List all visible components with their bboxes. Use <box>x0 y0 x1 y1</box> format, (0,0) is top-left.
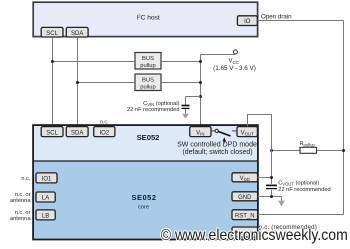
chip pin DWL_REQ <box>232 227 258 237</box>
chip pin LB <box>36 210 55 220</box>
junction dot VDD <box>270 176 273 179</box>
svg-text:© www.electronicsweekly.com: © www.electronicsweekly.com <box>161 227 348 244</box>
chip pin RST_N <box>232 210 258 220</box>
svg-text:RST_N: RST_N <box>235 213 255 219</box>
junction dot GND-CVOUT <box>270 195 273 198</box>
svg-text:22 nF recommended: 22 nF recommended <box>278 187 330 193</box>
svg-text:IO: IO <box>244 19 251 25</box>
svg-text:n.c.: n.c. <box>21 176 31 182</box>
resistor Rpullup <box>272 141 344 153</box>
chip pin GND <box>232 192 258 201</box>
svg-text:CVOUT (optional): CVOUT (optional) <box>278 181 319 187</box>
svg-text:antenna: antenna <box>10 198 31 204</box>
wire pullup1 right <box>161 61 201 63</box>
junction dot Rpullup-right <box>342 149 345 152</box>
ground arrow CVIN <box>182 114 189 119</box>
svg-text:SCL: SCL <box>46 31 58 37</box>
wire VDD <box>258 177 272 179</box>
svg-text:I2C host: I2C host <box>136 13 160 21</box>
chip pin IO2 <box>94 127 115 137</box>
wire SCL vertical <box>52 37 54 126</box>
svg-text:LA: LA <box>42 196 49 202</box>
svg-text:BUS: BUS <box>142 78 154 84</box>
svg-text:VIN: VIN <box>196 130 204 136</box>
svg-text:Rpullup: Rpullup <box>300 141 316 147</box>
wire RST_N <box>258 214 344 216</box>
chip pin IO1 <box>36 173 57 183</box>
svg-text:VOUT: VOUT <box>241 130 254 136</box>
junction dot Rpullup-left <box>270 149 273 152</box>
switch control arrow <box>223 137 227 143</box>
svg-text:SE052: SE052 <box>137 133 160 142</box>
host pin IO <box>237 16 257 26</box>
VCC rail horizontal <box>201 54 236 56</box>
svg-text:pullup: pullup <box>140 84 155 90</box>
wire SDA vertical <box>77 37 79 126</box>
VCC rail vertical <box>200 55 202 127</box>
svg-text:SCL: SCL <box>46 130 58 136</box>
chip pin SCL <box>41 127 63 137</box>
wire open drain horizontal <box>257 20 343 22</box>
chip pin VIN <box>190 127 211 137</box>
chip pin VOUT <box>237 127 257 137</box>
capacitor CVIN <box>182 97 201 114</box>
junction dot rail-pullup2 <box>199 81 202 84</box>
svg-text:SDA: SDA <box>71 130 83 136</box>
chip pin SDA <box>66 127 88 137</box>
wire pullup1 left <box>53 61 136 63</box>
SE052 chip outer <box>33 125 258 239</box>
ground arrow GND <box>278 197 285 207</box>
svg-text:22 nF recommended: 22 nF recommended <box>127 107 179 113</box>
svg-text:IO2: IO2 <box>99 130 109 136</box>
svg-text:GND: GND <box>238 195 252 201</box>
svg-text:pullup: pullup <box>140 63 155 69</box>
I2C host box <box>33 2 257 36</box>
svg-text:(1.65 V - 3.6 V): (1.65 V - 3.6 V) <box>213 65 256 72</box>
chip pin VDD <box>232 173 258 182</box>
junction dot SCL-pullup1 <box>51 60 54 63</box>
junction dot SDA-pullup2 <box>76 81 79 84</box>
host pin SDA <box>66 27 88 37</box>
chip pin LA <box>36 192 55 202</box>
svg-text:antenna: antenna <box>10 216 31 222</box>
svg-text:SW controlled DPD mode: SW controlled DPD mode <box>177 142 257 149</box>
junction dot rail-pullup1 <box>199 60 202 63</box>
svg-text:(default; switch closed): (default; switch closed) <box>182 149 252 156</box>
wire pullup2 left <box>78 82 136 84</box>
svg-text:SDA: SDA <box>71 31 83 37</box>
svg-text:n.c.: n.c. <box>100 119 108 125</box>
svg-text:BUS: BUS <box>142 56 154 62</box>
BUS pullup 2 <box>135 74 161 91</box>
capacitor CVOUT <box>266 184 277 190</box>
wire open drain vertical <box>343 21 345 215</box>
svg-text:IO1: IO1 <box>42 177 52 183</box>
svg-text:SE052: SE052 <box>131 193 156 202</box>
junction dot rail-CVIN <box>199 95 202 98</box>
switch SW (DPD) <box>211 129 237 136</box>
wire pullup2 right <box>161 82 201 84</box>
svg-text:VDD: VDD <box>240 176 250 182</box>
svg-text:Open drain: Open drain <box>261 13 292 20</box>
BUS pullup 1 <box>135 53 161 70</box>
host pin SCL <box>41 27 63 37</box>
svg-text:LB: LB <box>42 214 49 220</box>
wire VOUT up and over <box>248 115 272 197</box>
wire GND <box>258 196 282 198</box>
svg-text:core: core <box>138 204 149 210</box>
VCC terminal circle <box>233 50 237 54</box>
